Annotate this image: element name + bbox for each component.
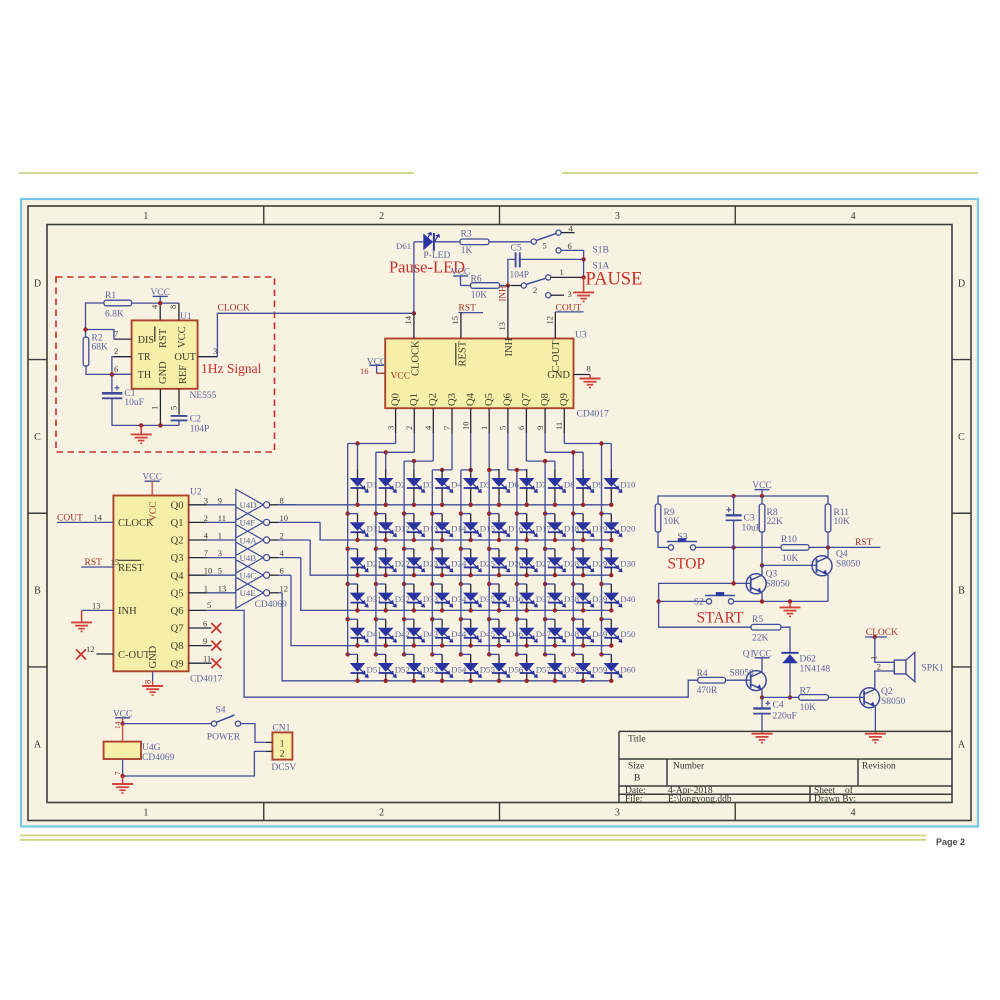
junction D17 cathode: [525, 538, 529, 542]
junction C3 column / stop line: [731, 545, 735, 549]
svg-text:Q4: Q4: [836, 550, 848, 560]
svg-text:U3: U3: [575, 331, 587, 341]
diode D62 1N4148: [781, 652, 798, 654]
svg-text:Q2: Q2: [428, 393, 439, 406]
wire Q1 emitter to node: [761, 689, 763, 697]
inverter U4B (CD4069): [236, 542, 263, 573]
junction CLOCK / D61 / U3 pin14: [412, 311, 416, 315]
svg-text:11: 11: [203, 654, 211, 664]
svg-text:S2: S2: [694, 598, 704, 608]
svg-text:D6: D6: [508, 479, 519, 489]
switch S1A: [521, 283, 526, 288]
svg-text:10K: 10K: [800, 703, 817, 713]
svg-text:2: 2: [379, 807, 384, 818]
junction U4G ground: [120, 774, 124, 778]
resistor R9 10K: [655, 504, 661, 532]
LED D28: [543, 547, 547, 551]
junction D42 cathode: [384, 643, 388, 647]
IC U1 NE555: [132, 320, 198, 388]
U1 pin 3 OUT: [198, 356, 218, 358]
junction column 7 top: [515, 468, 519, 472]
svg-text:R10: R10: [781, 535, 797, 545]
transistor Q2 S8050: [860, 688, 880, 708]
svg-text:Q3: Q3: [447, 393, 458, 406]
inverter U4F (CD4069): [236, 507, 263, 538]
svg-text:1: 1: [150, 406, 160, 410]
svg-text:4: 4: [851, 807, 856, 818]
resistor R6 10K: [461, 285, 471, 287]
LED D5: [470, 468, 472, 471]
U2 pin 15 REST: [81, 566, 113, 568]
svg-text:7: 7: [113, 771, 122, 775]
svg-text:S8050: S8050: [730, 669, 755, 679]
U3 pin 1 Q5: [488, 408, 490, 433]
svg-text:22K: 22K: [767, 517, 784, 527]
IC U4G CD4069 power part: [122, 724, 124, 742]
junction S1A pin1: [581, 275, 585, 279]
junction D15 cathode: [469, 538, 473, 542]
LED D22: [374, 547, 378, 551]
svg-text:REST: REST: [457, 340, 468, 366]
wire U3 Q0 to LED column 1: [395, 433, 397, 443]
junction D49 cathode: [581, 643, 585, 647]
svg-text:1: 1: [143, 211, 148, 222]
junction base/C3: [731, 581, 735, 585]
junction column 6 top: [487, 468, 491, 472]
svg-text:RST: RST: [158, 328, 169, 348]
junction D51 cathode: [355, 679, 359, 683]
junction supply VCC: [120, 721, 124, 725]
wire C3 bottom through stop line to Q3 base line: [733, 520, 735, 583]
svg-text:10: 10: [204, 566, 213, 576]
resistor R8 22K: [761, 496, 763, 504]
wire S1B pin6 to S1A node: [561, 250, 584, 259]
wire U3 Q8 to LED column 9: [544, 433, 546, 452]
U2 pin Q4: [189, 574, 207, 576]
svg-text:REST: REST: [118, 563, 144, 574]
svg-text:6: 6: [568, 241, 572, 251]
wire U4D out to row bus 1: [278, 504, 296, 506]
svg-text:CLOCK: CLOCK: [218, 304, 250, 314]
wire R1 left to R2 top: [86, 303, 105, 337]
svg-text:POWER: POWER: [207, 733, 241, 743]
svg-text:10K: 10K: [782, 554, 799, 564]
U3 pin 15 REST: [460, 313, 462, 339]
svg-text:5: 5: [543, 241, 547, 251]
svg-text:68K: 68K: [92, 343, 109, 353]
junction D3 cathode: [412, 503, 416, 507]
LED D32: [374, 582, 378, 586]
svg-text:NE555: NE555: [190, 391, 217, 401]
U3 pin 14 CLOCK: [413, 313, 415, 338]
U3 pin 12 C-OUT: [554, 312, 556, 339]
svg-text:SPK1: SPK1: [922, 663, 944, 673]
wire R3 to S1B pin5: [489, 241, 531, 243]
wire R4 to Q1 base: [726, 679, 751, 681]
U3 pin 10 Q4: [470, 408, 472, 433]
svg-text:104P: 104P: [190, 425, 210, 435]
wire R5 to D62 column: [781, 627, 790, 653]
junction D25 cathode: [469, 573, 473, 577]
junction D39 cathode: [581, 608, 585, 612]
svg-text:VCC: VCC: [149, 501, 159, 521]
svg-text:Q8: Q8: [171, 641, 184, 652]
svg-text:C: C: [34, 432, 41, 443]
svg-text:3: 3: [213, 346, 217, 356]
LED D4: [441, 468, 443, 471]
svg-text:Revision: Revision: [862, 762, 896, 772]
LED D58: [543, 652, 547, 656]
svg-text:C-OUT: C-OUT: [118, 650, 151, 661]
LED D31: [346, 582, 350, 586]
svg-text:Q1: Q1: [409, 393, 420, 406]
resistor R7 10K: [790, 696, 799, 698]
svg-text:Q2: Q2: [881, 687, 893, 697]
U2 pin Q2: [189, 539, 207, 541]
svg-text:104P: 104P: [510, 270, 530, 280]
svg-text:13: 13: [218, 583, 227, 593]
svg-text:Q4: Q4: [466, 392, 477, 406]
LED D26: [487, 547, 491, 551]
wire start line: [734, 600, 828, 602]
svg-text:Title: Title: [628, 735, 646, 745]
LED D51: [346, 652, 350, 656]
wire R10 to RST: [809, 546, 880, 548]
junction D16 cathode: [497, 538, 501, 542]
junction column 10 top: [599, 441, 603, 445]
U2 pin Q1: [189, 521, 207, 523]
svg-text:D1: D1: [367, 479, 378, 489]
svg-text:U4D: U4D: [240, 500, 257, 510]
wire CLOCK to SPK pin1: [875, 637, 895, 662]
svg-text:U4G: U4G: [142, 743, 161, 753]
junction D9 cathode: [581, 503, 585, 507]
svg-text:S8050: S8050: [766, 580, 791, 590]
svg-text:1K: 1K: [461, 246, 473, 256]
IC U3 CD4017: [385, 339, 573, 409]
LED D25: [459, 547, 463, 551]
junction D4 cathode: [440, 503, 444, 507]
junction D41 cathode: [355, 643, 359, 647]
svg-text:U2: U2: [190, 488, 202, 498]
junction D28 cathode: [553, 573, 557, 577]
wire U3 Q1 to LED column 2: [413, 433, 415, 452]
svg-text:5: 5: [218, 566, 222, 576]
wire S3 to R10: [696, 546, 781, 548]
LED D39: [571, 582, 575, 586]
wire COUT stub U3 pin12: [555, 311, 583, 313]
LED D9: [582, 452, 584, 469]
connector CN1: [272, 732, 292, 759]
svg-text:2: 2: [280, 749, 285, 759]
svg-text:U4C: U4C: [240, 571, 257, 581]
LED D59: [571, 652, 575, 656]
wire Q1 to inverter U4F: [207, 521, 236, 523]
junction clock/spk: [873, 635, 877, 639]
loudspeaker SPK1: [894, 660, 906, 674]
junction D58 cathode: [553, 679, 557, 683]
LED D2: [385, 452, 387, 469]
svg-text:B: B: [958, 586, 965, 597]
svg-text:3: 3: [385, 426, 395, 430]
svg-text:Drawn By:: Drawn By:: [814, 795, 856, 805]
svg-text:GND: GND: [547, 370, 570, 381]
junction D8 cathode: [553, 503, 557, 507]
svg-text:8: 8: [168, 305, 178, 309]
svg-text:7: 7: [204, 548, 208, 558]
U2 pin 14 CLOCK: [57, 521, 113, 523]
LED D35: [459, 582, 463, 586]
capacitor C4 220uF: [761, 697, 763, 707]
LED D10: [610, 444, 612, 470]
svg-text:6: 6: [516, 426, 526, 430]
U2 pin Q5: [189, 592, 207, 594]
wire U4C out to row bus 5: [278, 574, 291, 576]
svg-text:Q6: Q6: [171, 606, 184, 617]
junction D18 cathode: [553, 538, 557, 542]
svg-text:1: 1: [204, 583, 208, 593]
svg-text:R7: R7: [800, 686, 811, 696]
U3 pin 5 Q6: [507, 408, 509, 433]
svg-text:RST: RST: [855, 538, 873, 548]
svg-text:220uF: 220uF: [773, 712, 797, 722]
svg-text:2: 2: [379, 211, 384, 222]
junction D59 cathode: [581, 679, 585, 683]
wire C4 to ground: [761, 714, 763, 732]
svg-text:4: 4: [851, 211, 856, 222]
junction column 4 top: [440, 468, 444, 472]
svg-text:D60: D60: [620, 664, 636, 674]
junction column 8 top: [543, 459, 547, 463]
wire S1 column to ground: [583, 259, 585, 277]
svg-text:D8: D8: [564, 479, 575, 489]
wire U3 Q2 to LED column 3: [432, 433, 434, 461]
LED D29: [571, 547, 575, 551]
LED D16: [487, 511, 491, 515]
wire U3 Q9 to LED column 10: [563, 433, 565, 443]
svg-text:6.8K: 6.8K: [105, 310, 124, 320]
resistor R5 22K: [751, 624, 781, 630]
junction INH node: [506, 283, 510, 287]
U1 pin 5 REF: [178, 389, 180, 415]
junction D1 cathode: [355, 503, 359, 507]
matrix row bus 3: [310, 540, 611, 575]
wire R9 to S3: [658, 532, 668, 547]
junction D32 cathode: [384, 608, 388, 612]
ground (Q2): [874, 731, 876, 733]
wire U3 Q7 to LED column 8: [525, 433, 527, 461]
svg-text:3: 3: [204, 495, 208, 505]
LED D47: [515, 617, 519, 621]
LED D60: [599, 652, 603, 656]
U3 pin 3 Q0: [395, 408, 397, 433]
resistor R4 470R: [698, 677, 726, 683]
svg-text:U4F: U4F: [240, 518, 256, 528]
U3 pin 2 Q1: [413, 408, 415, 433]
LED D20: [599, 511, 603, 515]
svg-text:C5: C5: [511, 243, 522, 253]
svg-text:Q9: Q9: [559, 393, 570, 406]
svg-text:10K: 10K: [834, 517, 851, 527]
svg-text:D50: D50: [620, 629, 636, 639]
resistor R3 1K: [460, 239, 489, 245]
LED D46: [487, 617, 491, 621]
svg-text:6: 6: [280, 566, 284, 576]
svg-text:Q9: Q9: [171, 659, 184, 670]
svg-text:D5: D5: [480, 479, 491, 489]
svg-text:Q5: Q5: [171, 588, 184, 599]
svg-text:D: D: [34, 279, 41, 290]
wire TR to TH node: [112, 357, 114, 392]
junction D12 cathode: [384, 538, 388, 542]
svg-text:1: 1: [143, 807, 148, 818]
svg-text:D2: D2: [395, 479, 406, 489]
svg-text:10K: 10K: [664, 517, 681, 527]
svg-text:9: 9: [218, 495, 222, 505]
inverter U4C (CD4069): [236, 560, 263, 591]
wire U3 Q4 to LED column 5: [470, 433, 472, 470]
wire VCC to S4: [123, 723, 212, 725]
svg-text:CLOCK: CLOCK: [410, 340, 421, 376]
U3 pin 9 Q8: [544, 408, 546, 433]
wire start line to R5: [659, 601, 751, 627]
U2 pin Q3: [189, 557, 207, 559]
LED D21: [346, 547, 350, 551]
capacitor C5 104P: [515, 252, 517, 267]
svg-text:6: 6: [114, 364, 118, 374]
matrix row bus 5: [291, 575, 611, 645]
svg-text:DC5V: DC5V: [271, 763, 296, 773]
wire U4B out to row bus 4: [278, 557, 300, 559]
svg-text:STOP: STOP: [668, 556, 706, 573]
svg-text:10: 10: [461, 422, 471, 431]
svg-text:Q4: Q4: [171, 571, 185, 582]
LED D54: [430, 652, 434, 656]
junction D5 cathode: [469, 503, 473, 507]
U3 pin 7 Q3: [451, 408, 453, 433]
svg-text:C2: C2: [190, 415, 201, 425]
svg-text:C4: C4: [773, 701, 784, 711]
svg-text:D30: D30: [620, 559, 636, 569]
wire R7 to Q2 base: [828, 696, 864, 698]
junction D53 cathode: [412, 679, 416, 683]
wire Q0 to inverter U4D: [207, 504, 236, 506]
svg-text:GND: GND: [158, 361, 169, 384]
resistor R1 6.8K: [104, 300, 132, 306]
svg-text:15: 15: [450, 316, 460, 325]
wire node link: [762, 696, 790, 698]
svg-text:2: 2: [404, 426, 414, 430]
svg-text:5: 5: [207, 600, 211, 610]
wire node to Q4 base: [762, 564, 817, 566]
wire Q2 to inverter U4A: [207, 539, 236, 541]
junction D37 cathode: [525, 608, 529, 612]
svg-text:10uF: 10uF: [742, 524, 762, 534]
LED D52: [374, 652, 378, 656]
U3 pin 8 GND + ground: [574, 374, 591, 376]
svg-text:Q1: Q1: [171, 518, 184, 529]
U2 pin Q7 no-connect: [189, 627, 212, 629]
svg-text:R4: R4: [697, 669, 708, 679]
junction D2 cathode: [384, 503, 388, 507]
LED D30: [599, 547, 603, 551]
svg-text:8: 8: [587, 364, 591, 374]
junction D45 cathode: [469, 643, 473, 647]
junction D26 cathode: [497, 573, 501, 577]
capacitor C2 104P: [171, 415, 188, 417]
switch S4 POWER: [211, 721, 216, 726]
svg-text:5: 5: [168, 406, 178, 410]
wire R1/R2 junction to DIS: [86, 330, 114, 340]
LED D36: [487, 582, 491, 586]
junction column 1 top: [355, 441, 359, 445]
LED D34: [430, 582, 434, 586]
resistor R2 68K: [83, 337, 89, 366]
junction VCC node: [158, 301, 162, 305]
svg-text:D10: D10: [620, 479, 636, 489]
title block: [619, 730, 952, 732]
junction TH-TR-C1: [110, 372, 114, 376]
LED D45: [459, 617, 463, 621]
U1 pin 4 RST: [159, 303, 161, 320]
LED D17: [515, 511, 519, 515]
junction column 9 top: [571, 450, 575, 454]
wire U3 Q5 to LED column 6: [488, 433, 490, 470]
LED D14: [430, 511, 434, 515]
LED D55: [459, 652, 463, 656]
junction R7 node: [788, 695, 792, 699]
resistor R11 10K: [825, 504, 831, 532]
junction D24 cathode: [440, 573, 444, 577]
svg-text:D9: D9: [592, 479, 603, 489]
wire R1 right to VCC node to pin8: [132, 302, 161, 304]
wire U3 Q6 to LED column 7: [507, 433, 509, 470]
transistor Q1 S8050: [746, 671, 766, 691]
wire CN1 pin2 to ground rail: [123, 751, 266, 776]
junction D44 cathode: [440, 643, 444, 647]
wire Q5 to inverter U4E: [207, 592, 236, 594]
svg-text:11: 11: [554, 422, 564, 430]
svg-text:C: C: [958, 432, 965, 443]
wire U4E out to row bus 6: [278, 592, 282, 594]
IC U2 CD4017: [113, 496, 188, 672]
junction D7 cathode: [525, 503, 529, 507]
junction D13 cathode: [412, 538, 416, 542]
svg-text:3: 3: [615, 807, 620, 818]
capacitor C3 10uF: [733, 496, 735, 514]
svg-text:2: 2: [204, 513, 208, 523]
svg-text:Q8: Q8: [540, 393, 551, 406]
svg-text:11: 11: [218, 513, 226, 523]
junction D40 cathode: [609, 608, 613, 612]
svg-text:START: START: [697, 610, 744, 627]
U2 pin Q9 no-connect: [189, 662, 212, 664]
wire D62 anode to R7 node: [789, 663, 791, 697]
svg-text:7: 7: [114, 329, 118, 339]
svg-text:4: 4: [204, 531, 209, 541]
svg-text:3: 3: [615, 211, 620, 222]
U3 pin 13 INH: [507, 286, 509, 339]
junction column 3 top: [412, 459, 416, 463]
capacitor C1 10uF: [102, 392, 123, 395]
wire C5 right plate to S1 column: [520, 258, 584, 260]
svg-text:R6: R6: [471, 274, 482, 284]
junction D52 cathode: [384, 679, 388, 683]
U4B output pin 4: [270, 557, 279, 559]
svg-text:S8050: S8050: [881, 697, 906, 707]
svg-text:CD4069: CD4069: [142, 753, 174, 763]
junction R1-R2-DIS: [83, 327, 87, 331]
